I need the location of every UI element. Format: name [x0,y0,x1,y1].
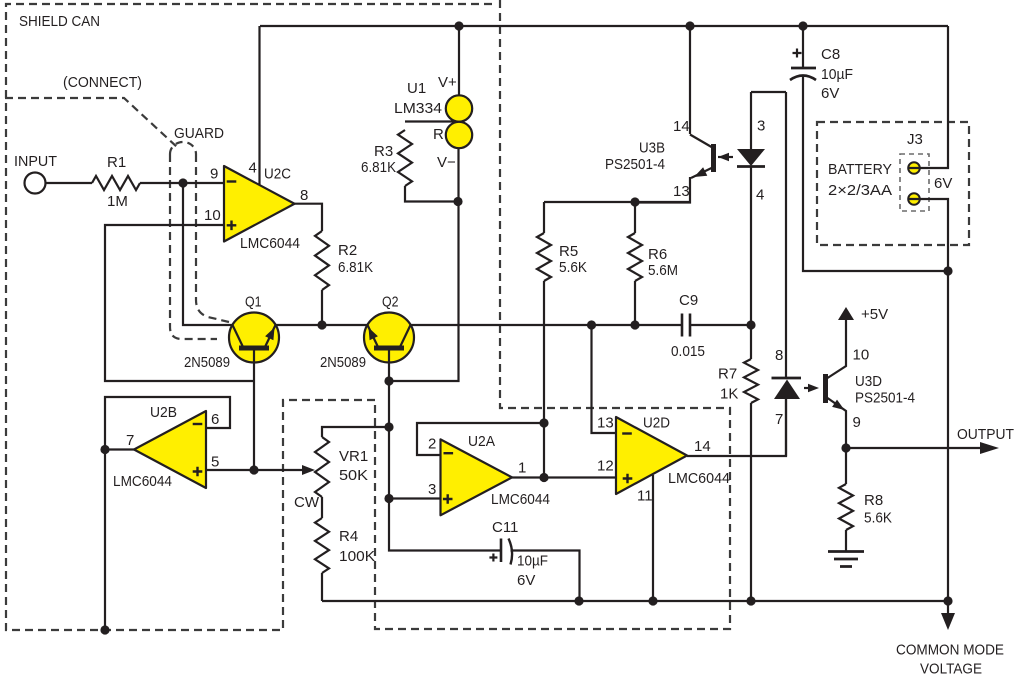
U3B light arrow [718,153,729,161]
svg-text:(CONNECT): (CONNECT) [63,74,142,91]
Q1 collector line [233,325,244,348]
node shield drive [100,625,109,634]
svg-text:LMC6044: LMC6044 [113,473,172,490]
svg-text:R7: R7 [718,366,737,383]
op-amp U2A [441,439,513,515]
svg-text:C9: C9 [679,292,698,309]
capacitor C8 top plate [791,67,816,70]
ground symbol [828,552,864,567]
wire Q1 to Q2 emitter rail [276,324,368,326]
svg-text:OUTPUT: OUTPUT [957,426,1014,443]
Q1 emitter arrow [265,328,274,341]
svg-text:U2D: U2D [643,414,670,431]
Q1 emitter line [265,325,276,348]
node U2A pin3 [384,494,393,503]
U3D emitter arrow [832,400,844,410]
svg-text:13: 13 [597,414,614,431]
svg-text:BATTERY: BATTERY [828,161,892,178]
node U2A feedback R5 [539,418,548,427]
resistor R2 [315,231,329,290]
svg-text:1K: 1K [720,386,738,403]
svg-text:R3: R3 [374,143,393,160]
guard ring right dashed [196,154,229,322]
U3B collector line [690,135,712,148]
svg-text:8: 8 [775,347,783,364]
Q2 base lead [389,350,500,551]
J3 bottom pin [908,193,920,205]
node R6 top U3B emitter [630,197,639,206]
U2B plus [193,467,203,477]
svg-text:6V: 6V [517,572,535,589]
C11 plus [489,554,497,562]
capacitor C9 right plate [689,314,692,337]
svg-text:R1: R1 [107,154,126,171]
svg-text:6V: 6V [934,175,952,192]
svg-text:PS2501-4: PS2501-4 [855,390,915,407]
svg-text:10: 10 [853,347,870,364]
resistor R6 [628,233,642,281]
node R6 bottom rail [630,320,639,329]
wire U1 R pin to R3 [405,120,455,122]
svg-text:VR1: VR1 [339,448,368,465]
svg-text:14: 14 [694,438,711,455]
svg-text:10: 10 [204,207,221,224]
U2D plus [623,474,633,484]
wire U2B noninverting to wiper [206,469,306,471]
svg-text:5: 5 [211,454,219,471]
U3B emitter line [691,168,712,178]
svg-text:+5V: +5V [861,306,888,323]
wire R4 to bottom rail [321,573,323,601]
wire J3 top pin to rail [908,26,948,168]
wire U2D inverting pin13 [592,325,617,433]
wire C11 to bottom rail [511,551,580,602]
Q1 base lead [253,350,255,470]
node C9 R7 junction [746,320,755,329]
U2C plus [227,221,237,231]
U1 body top circle [446,95,472,121]
R8 bottom lead [845,530,847,552]
svg-text:V−: V− [437,154,456,171]
svg-text:LM334: LM334 [394,100,442,117]
svg-text:R8: R8 [864,492,883,509]
node U2D pin11 rail [648,596,657,605]
wire R3 bottom to V- [405,186,457,202]
resistor R4 [315,518,329,573]
svg-text:50K: 50K [339,467,368,484]
svg-text:U1: U1 [407,80,426,97]
R5 bottom lead to U2A output [543,281,545,477]
wire U2B feedback pin6 [105,397,230,630]
wire LED bridge [751,91,786,93]
svg-text:R2: R2 [338,242,357,259]
connect dashed stub [5,98,177,147]
U3B LED cathode lead [750,167,752,359]
svg-text:C11: C11 [492,519,518,536]
svg-text:13: 13 [673,183,690,200]
svg-text:VOLTAGE: VOLTAGE [920,661,982,678]
svg-text:0.015: 0.015 [671,343,705,360]
VR1 wiper arrow [302,465,315,475]
svg-text:Q2: Q2 [382,294,399,311]
+5V arrow [838,307,854,320]
shield-can dashed boundary (driven shield outline) [6,0,730,630]
svg-text:6.81K: 6.81K [361,159,396,176]
node top rail to U3B pin14 [685,21,694,30]
wire U1 V- down to Q2 base [389,148,459,381]
svg-text:R6: R6 [648,246,667,263]
svg-text:U3D: U3D [855,373,882,390]
node R7 bottom rail [746,596,755,605]
J3 top pin [908,162,920,174]
R7 bottom lead [750,403,752,601]
node common mode rail [943,596,952,605]
wire top positive rail [260,25,948,27]
svg-text:4: 4 [756,187,764,204]
svg-text:R4: R4 [339,528,358,545]
svg-text:INPUT: INPUT [14,153,57,170]
svg-text:U2C: U2C [264,166,291,183]
wire J3 bottom pin down rail [908,199,948,601]
wire Q2 collector rail to C9 [411,324,683,326]
svg-text:GUARD: GUARD [174,125,224,142]
node U2A output [539,473,548,482]
svg-text:V+: V+ [438,74,457,91]
svg-text:3: 3 [428,481,436,498]
U3D LED cathode lead pin8 [785,92,787,378]
resistor R1 [92,176,140,190]
svg-text:R5: R5 [559,243,578,260]
svg-text:6: 6 [211,411,219,428]
C8 top lead [802,26,804,68]
wire V+ stub to U1 [458,26,460,96]
svg-text:7: 7 [126,432,134,449]
svg-text:J3: J3 [907,131,923,148]
U3B emitter arrow [694,167,707,177]
transistor Q1 body [229,313,279,363]
wire VR1 top to Q2 base [322,427,389,437]
U2A plus [443,494,453,504]
svg-text:2N5089: 2N5089 [320,354,366,371]
svg-text:5.6K: 5.6K [864,510,892,527]
wire input to R1 [46,182,93,184]
potentiometer VR1 [315,437,329,497]
svg-text:LMC6044: LMC6044 [491,491,550,508]
U3B LED anode lead [750,92,752,150]
wire output [846,447,980,449]
wire U2C pin4 supply stub [258,26,260,186]
svg-text:SHIELD CAN: SHIELD CAN [19,13,100,30]
svg-text:CW: CW [294,494,320,511]
svg-text:5.6M: 5.6M [648,262,678,279]
U3B pin14 lead [689,26,691,134]
svg-text:7: 7 [775,411,783,428]
node top rail to C8 [798,21,807,30]
U2D pin11 supply stub [652,475,654,601]
resistor R8 [839,484,853,530]
battery dashed box [817,122,969,245]
R6 top lead [634,202,636,233]
svg-text:5.6K: 5.6K [559,259,587,276]
resistor R3 [398,130,412,186]
svg-text:6V: 6V [821,85,839,102]
svg-text:U3B: U3B [639,139,665,156]
svg-text:9: 9 [210,166,218,183]
capacitor C8 curved plate [790,76,816,81]
Q2 base bar [374,346,404,351]
U2D minus [622,432,632,434]
resistor R5 [537,233,551,281]
svg-text:4: 4 [249,160,257,177]
node C11 bottom rail [574,596,583,605]
C8 plus [793,49,802,58]
wire U2C output to R2 [294,204,322,231]
svg-text:U2A: U2A [468,433,495,450]
svg-text:C8: C8 [821,46,840,63]
wire bottom rail [322,600,948,602]
node U2D pin13 rail [587,320,596,329]
capacitor C11 left plate [500,539,503,563]
svg-text:U2B: U2B [150,404,177,421]
R5 top lead [543,202,545,233]
svg-text:12: 12 [597,457,614,474]
node Q2 base V- junction [384,376,393,385]
svg-text:1: 1 [518,459,526,476]
wire U2C noninverting input [105,225,254,381]
U3B emitter lead [635,177,690,203]
svg-text:PS2501-4: PS2501-4 [605,156,665,173]
svg-text:2N5089: 2N5089 [184,354,230,371]
U3D base bar [823,374,828,403]
op-amp U2D [616,417,687,494]
U3D collector lead [828,319,847,378]
svg-text:COMMON MODE: COMMON MODE [896,642,1004,659]
node output junction [841,443,850,452]
Q2 emitter arrow [369,328,378,341]
svg-text:2: 2 [428,436,436,453]
node R1 output [178,178,187,187]
guard ring top arc dashed [170,142,196,154]
common mode arrow [947,601,949,614]
U3D emitter line [828,398,847,448]
LED U3D [772,377,802,380]
wire U2D output [687,399,786,456]
U2C minus [227,180,237,182]
R6 bottom lead [634,281,636,325]
node U2B output [100,445,109,454]
svg-text:2×2/3AA: 2×2/3AA [828,182,892,199]
Q2 collector line [400,325,411,348]
wire VR1 to R4 [321,497,323,518]
svg-text:3: 3 [757,118,765,135]
svg-text:R: R [433,126,444,143]
C8 bottom lead [803,76,948,271]
node C8 rail junction [943,266,952,275]
svg-text:100K: 100K [339,548,375,565]
Q1 base bar [239,346,269,351]
output arrow [980,442,999,454]
wire R2 to emitter rail [321,290,323,325]
svg-text:10µF: 10µF [517,553,548,570]
U3B base bar [711,144,716,172]
svg-text:10µF: 10µF [821,66,853,83]
wire R1 to U2C inverting input [140,182,224,184]
U1 body bottom circle [446,122,472,148]
svg-text:1M: 1M [107,193,128,210]
svg-text:11: 11 [637,488,653,505]
node top rail to U1 V+ [454,21,463,30]
U3D LED anode lead pin7 [785,399,787,456]
wire R5 R6 top rail [544,201,690,203]
U2A minus [444,452,454,454]
node VR1 top Q2 base [384,422,393,431]
U2B minus [193,423,203,425]
svg-text:LMC6044: LMC6044 [240,235,300,252]
U3D light arrow [804,387,812,389]
R8 top lead [845,448,847,484]
Q2 emitter line [368,325,379,348]
svg-text:9: 9 [853,414,861,431]
node Q1 base U2B junction [249,465,258,474]
capacitor C11 right plate [509,539,513,565]
wire C9 to R7 top [690,324,751,326]
svg-text:14: 14 [673,118,690,135]
op-amp U2B [134,411,206,488]
svg-text:8: 8 [300,187,308,204]
guard ring left dashed [170,154,217,339]
svg-text:6.81K: 6.81K [338,259,373,276]
wire U2A feedback pin2 [417,423,544,455]
svg-text:LMC6044: LMC6044 [668,470,730,487]
node R2 bottom [317,320,326,329]
svg-text:Q1: Q1 [245,294,262,311]
wire guarded trace to Q1 collector [183,183,233,325]
capacitor C9 left plate [681,314,684,337]
J3 connector dashed box [900,154,929,211]
transistor Q2 body [364,313,414,363]
resistor R7 [744,359,758,403]
op-amp U2C [224,166,295,242]
wire U2A output to U2D [512,476,616,478]
input terminal [25,173,46,194]
wire U2B output [105,448,134,450]
wire U2A noninverting pin3 [389,497,440,499]
LED U3B [737,149,765,166]
node V- R3 junction [453,197,462,206]
